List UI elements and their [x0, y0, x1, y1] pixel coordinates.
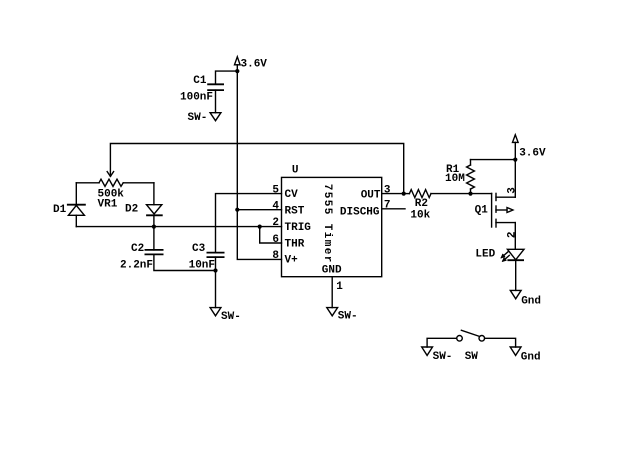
wire drain to supply	[514, 160, 516, 198]
wire OUT feedback to wiper	[110, 144, 403, 194]
node junction TRIG/THR	[258, 225, 262, 229]
switch SW	[457, 330, 485, 341]
power flag 3.6V (right)	[513, 135, 519, 160]
svg-text:OUT: OUT	[361, 190, 381, 202]
svg-text:D2: D2	[125, 204, 138, 216]
svg-text:7: 7	[384, 200, 391, 212]
wire gate	[471, 193, 492, 195]
ground Gnd (switch right)	[510, 347, 521, 355]
wire THR link	[260, 227, 282, 243]
wire switch right	[485, 338, 516, 347]
svg-text:SW-: SW-	[221, 311, 241, 323]
svg-text:C1: C1	[193, 75, 207, 87]
wire pot right to D2 anode	[153, 183, 155, 205]
svg-text:R2: R2	[415, 198, 428, 210]
wire GND pin 1	[331, 277, 333, 308]
transistor Q1	[492, 193, 516, 227]
svg-text:2: 2	[272, 217, 279, 229]
capacitor C2	[145, 250, 164, 255]
wire TRIG net	[76, 226, 281, 228]
svg-text:2.2nF: 2.2nF	[120, 259, 153, 271]
wire D1 anode down to TRIG net	[75, 215, 77, 226]
svg-text:5: 5	[321, 200, 333, 207]
svg-text:6: 6	[272, 234, 279, 246]
resistor R1	[467, 160, 475, 194]
svg-text:Gnd: Gnd	[521, 351, 541, 363]
svg-text:10nF: 10nF	[189, 259, 215, 271]
wire 3.6V rail down to V+ pin	[237, 71, 281, 259]
svg-text:m: m	[321, 240, 333, 247]
wire R1 top to supply rail	[471, 159, 516, 161]
svg-text:THR: THR	[285, 238, 305, 250]
svg-text:10M: 10M	[445, 173, 465, 185]
svg-text:3.6V: 3.6V	[241, 59, 268, 71]
wire C2 top	[153, 227, 155, 250]
ground SW- (under GND pin)	[327, 308, 338, 316]
svg-text:DISCHG: DISCHG	[340, 206, 380, 218]
node junction D2/C2/TRIG	[152, 225, 156, 229]
node junction C2/C3 ground	[213, 268, 217, 272]
svg-text:8: 8	[272, 250, 279, 262]
svg-text:C3: C3	[192, 243, 206, 255]
diode D1	[67, 205, 86, 216]
node junction rail/RST	[235, 208, 239, 212]
svg-text:TRIG: TRIG	[285, 222, 312, 234]
ground SW- (switch left)	[422, 347, 433, 355]
wire source to LED	[514, 223, 516, 250]
svg-text:RST: RST	[285, 205, 305, 217]
svg-text:LED: LED	[475, 249, 495, 261]
svg-text:7: 7	[321, 184, 333, 191]
svg-text:C2: C2	[131, 243, 144, 255]
wire DISCHG stub	[382, 208, 405, 210]
node junction supply/R1	[513, 158, 517, 162]
svg-text:5: 5	[321, 208, 333, 215]
svg-text:3.6V: 3.6V	[519, 147, 546, 159]
wire pot left to D1 cathode	[75, 183, 77, 205]
svg-text:SW-: SW-	[338, 311, 358, 323]
wire CV to C3 top	[216, 194, 282, 253]
svg-text:r: r	[321, 256, 333, 263]
ground SW- (under C3)	[210, 308, 221, 316]
svg-text:e: e	[321, 248, 333, 255]
svg-text:CV: CV	[285, 189, 299, 201]
svg-text:SW-: SW-	[433, 351, 453, 363]
LED	[502, 249, 524, 261]
wire ground node down	[215, 271, 217, 308]
node junction R2/R1/gate	[468, 192, 472, 196]
svg-text:5: 5	[321, 192, 333, 199]
node junction at supply/C1	[235, 69, 239, 73]
svg-text:2: 2	[507, 231, 519, 238]
label 7555 Timer (vertical)	[321, 184, 333, 263]
svg-text:Gnd: Gnd	[521, 295, 541, 307]
ground SW- (under C1)	[210, 113, 221, 121]
power flag V+ 3.6V (top left)	[235, 57, 241, 71]
svg-text:V+: V+	[285, 255, 299, 267]
svg-text:Q1: Q1	[475, 205, 489, 217]
op-amp U 7555 timer body	[282, 177, 382, 276]
svg-text:5: 5	[272, 184, 279, 196]
svg-text:D1: D1	[53, 204, 67, 216]
capacitor C3	[207, 253, 225, 258]
svg-text:3: 3	[506, 187, 518, 194]
capacitor C1	[207, 84, 224, 90]
diode D2	[146, 205, 163, 216]
svg-text:4: 4	[272, 201, 279, 213]
ground Gnd (under LED)	[510, 290, 521, 298]
svg-text:T: T	[321, 224, 333, 231]
wire switch left	[427, 338, 457, 347]
wire RST stub	[237, 209, 281, 211]
svg-text:VR1: VR1	[98, 198, 118, 210]
wire LED to Gnd	[515, 260, 517, 290]
svg-text:GND: GND	[322, 265, 342, 277]
node junction OUT/feedback/R2	[402, 192, 406, 196]
svg-text:i: i	[321, 232, 333, 239]
svg-text:3: 3	[384, 184, 391, 196]
wire C2 bottom to ground node	[154, 254, 216, 270]
resistor R2	[404, 190, 471, 198]
wire C1 bottom to ground	[215, 90, 217, 113]
svg-text:100nF: 100nF	[180, 91, 213, 103]
svg-text:SW-: SW-	[188, 112, 208, 124]
wire D2 cathode down	[153, 215, 155, 226]
svg-text:10k: 10k	[410, 209, 430, 221]
wire C1 top to supply node	[216, 71, 238, 84]
wire C3 bottom to ground	[215, 257, 217, 270]
svg-text:1: 1	[336, 281, 343, 293]
wire OUT pin stub	[382, 193, 404, 195]
svg-text:U: U	[292, 164, 299, 176]
potentiometer VR1	[76, 172, 154, 187]
svg-text:SW: SW	[465, 351, 479, 363]
